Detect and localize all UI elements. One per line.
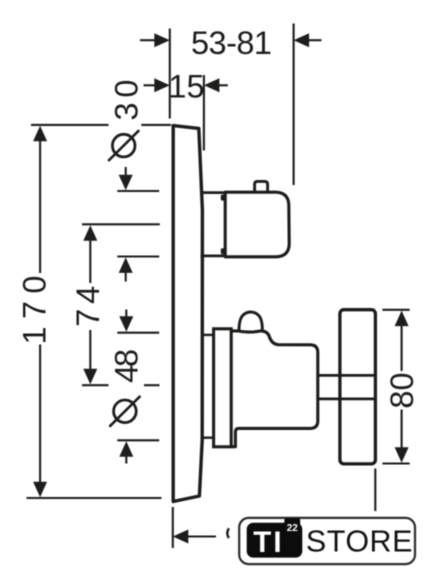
dim 15 right arrow tail [217,84,228,86]
dim 74 line lower [89,330,91,372]
dim 170 line upper [39,140,41,273]
upper cartridge body [225,192,289,257]
extension line right of 53-81 [293,24,295,186]
lower cartridge body [231,331,318,447]
diameter symbol of Ø30: slash [108,130,139,161]
lower flange connector tick bottom [202,437,214,439]
arrowhead 80 top (points up) [395,311,409,327]
arrowhead 170 bottom (points down) [33,482,47,498]
diameter symbol of Ø48: slash [109,396,140,427]
dim 53-81 right arrow tail [308,39,322,41]
dim 170 top tick left seg [31,124,109,126]
svg-text:48: 48 [109,349,145,383]
dim 170 top tick right seg [141,124,171,126]
dim 80 top tick [382,309,409,311]
arrowhead 74 bottom (points down) [83,369,97,385]
dim 15 left arrow tail [144,84,157,86]
arrowhead bottom dim (points left) [173,530,189,544]
diameter symbol of Ø30: circle [112,134,135,157]
logo outer rounded box [239,518,415,564]
dim Ø30 top tick [117,190,159,192]
svg-text:170: 170 [17,276,53,345]
dim 74 top tick [82,223,160,225]
arrowhead 74 top (points up) [83,225,97,241]
dim 80 bottom tick [382,462,409,464]
upper cartridge sleeve top line [201,191,227,194]
dim 53-81 left arrow tail [140,39,156,41]
dim 74 bottom tick right seg [144,384,160,386]
cross handle bar [340,310,376,464]
extension line left of 53-81 / 15 [169,29,171,119]
lower spindle knob [239,312,262,331]
handle stem lower line [318,397,376,400]
dim 80 line lower [401,410,403,449]
svg-text:STORE: STORE [306,525,413,559]
dim Ø30 lower leader line [125,272,127,282]
arrowhead Ø48 bottom (points up) [119,441,133,457]
dim 74 bottom tick left seg [82,384,109,386]
dim Ø48 top tick [117,332,159,334]
logo TI black block [247,523,303,558]
dim 80 line upper [401,325,403,372]
diameter symbol of Ø48: circle [114,400,137,423]
lower flange [214,329,232,447]
arrowhead Ø30 top (points down) [119,175,133,191]
bottom dim right extension line [374,469,376,512]
arrowhead 15 left (points right) [154,78,170,92]
logo 22 tab [284,518,300,535]
upper cartridge clip bottom [221,248,227,254]
arrowhead Ø30 bottom (points up) [119,257,133,273]
arrowhead 170 top (points up) [33,126,47,142]
dim Ø48 upper leader [125,310,127,318]
dim Ø48 bottom tick [117,439,159,441]
dim 74 line upper [89,238,91,283]
upper cartridge sleeve bottom line [201,254,227,257]
arrowhead 80 bottom (points down) [395,447,409,463]
wall plate side view [173,126,202,502]
bottom dim line [186,535,216,537]
extension line right of 15 [203,75,205,151]
dim 170 line lower [39,345,41,484]
lower flange connector tick top [202,334,214,336]
svg-text:53-81: 53-81 [191,25,272,61]
arrowhead 53-81 right (points left) [294,33,310,47]
dim Ø30 leader line above [125,167,127,177]
svg-text:15: 15 [168,68,204,104]
svg-text:80: 80 [384,372,420,408]
bottom dim hidden label "(" sliver [227,528,229,538]
arrowhead Ø48 top (points down) [119,316,133,332]
dim Ø48 lower leader [125,456,127,464]
dim 170 bottom tick [27,497,162,499]
arrowhead 53-81 left (points right) [154,33,170,47]
upper spindle nub [255,181,268,191]
handle stem upper line [318,374,376,377]
bottom dim left extension line [172,507,174,548]
upper cartridge clip top [221,195,227,201]
arrowhead 15 right (points left) [204,78,220,92]
svg-text:22: 22 [287,523,299,534]
dim Ø30 bottom tick [117,255,159,257]
svg-text:TI: TI [253,526,283,559]
